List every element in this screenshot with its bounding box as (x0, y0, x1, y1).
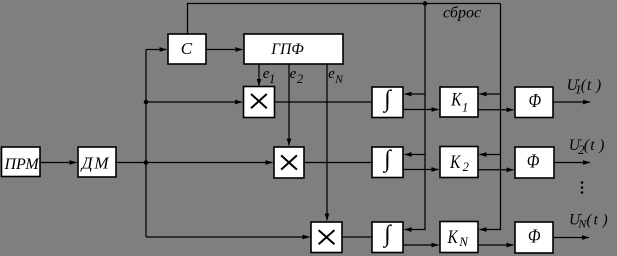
svg-text:Ф: Ф (527, 150, 540, 172)
wire: K_N to Ф3 (478, 244, 514, 246)
svg-text:∫: ∫ (382, 147, 392, 174)
wire: eN from ГПФ into multiplier 3 (326, 64, 328, 221)
svg-text:t: t (594, 211, 599, 228)
integrator 3 (372, 222, 403, 253)
wire: сброс top feedback line from C up and across (188, 4, 501, 35)
svg-text:(: ( (587, 211, 593, 228)
label: vertical ellipsis between row 2 and row 3 outputs (581, 181, 584, 194)
svg-text:1: 1 (269, 72, 275, 86)
block ДМ (78, 147, 116, 177)
wire: multiplier 2 to integrator 2 (304, 162, 372, 164)
wire: reset stub into integrator 2 (405, 154, 426, 156)
node: junction dot row 1 branch (144, 100, 149, 105)
wire: branch vertical from C row down to row 3 (145, 50, 147, 238)
svg-text:N: N (458, 234, 469, 249)
wire: integrator 2 to K2 (403, 169, 439, 171)
svg-text:∫: ∫ (382, 87, 392, 114)
label: U'2(t) output (569, 137, 605, 157)
svg-text:2: 2 (297, 72, 303, 86)
node: junction dot row 2 branch (144, 160, 149, 165)
wire: reset stub into integrator 1 (405, 93, 426, 95)
wire: multiplier 3 to integrator 3 (342, 236, 372, 238)
svg-text:Ф: Ф (529, 89, 542, 111)
svg-text:): ) (602, 211, 608, 228)
svg-text:N: N (334, 74, 344, 86)
svg-text:(: ( (581, 77, 587, 94)
svg-text:(: ( (584, 137, 590, 154)
label: U'N(t) output (569, 211, 608, 230)
wire: Ф3 output U'N(t) (553, 237, 589, 239)
block С (synchronizer) (168, 34, 206, 64)
wire: K1 to Ф1 (478, 109, 514, 111)
block K1 (440, 87, 478, 117)
wire: ДМ to multiplier 2 (116, 162, 273, 164)
wire: Ф2 output U'2(t) (554, 162, 590, 164)
svg-text:∫: ∫ (382, 222, 392, 249)
block K2 (440, 147, 478, 178)
svg-text:ПРМ: ПРМ (4, 156, 41, 173)
node: junction dot on сброс line (423, 1, 428, 6)
wire: multiplier 1 to integrator 1 (275, 101, 372, 103)
multiplier 2 (274, 147, 304, 178)
wire: сброс vertical to K resets, into K_N (480, 4, 501, 230)
svg-text:К: К (449, 152, 461, 173)
svg-text:сброс: сброс (443, 5, 481, 22)
wire: integrator 3 to K_N (403, 244, 439, 246)
svg-text:2: 2 (463, 160, 469, 174)
block Ф1 (515, 87, 553, 118)
multiplier 1 (244, 87, 275, 118)
wire: C to ГПФ (206, 49, 243, 51)
block ГПФ (244, 34, 343, 64)
block K_N (440, 222, 478, 253)
wire: ПРМ to ДМ (40, 162, 77, 164)
block ПРМ (2, 147, 41, 177)
svg-text:1: 1 (462, 101, 468, 115)
svg-text:Ф: Ф (528, 225, 541, 247)
svg-text:e: e (328, 66, 335, 82)
wire: Ф1 output U'1(t) (553, 101, 590, 103)
wire: branch into multiplier 1 (146, 101, 242, 103)
svg-text:t: t (587, 77, 592, 94)
multiplier 3 (311, 222, 342, 253)
svg-text:): ) (595, 77, 601, 94)
block Ф2 (515, 147, 554, 178)
wire: reset stub into K1 (480, 93, 501, 95)
svg-text:e: e (290, 66, 297, 82)
block Ф3 (515, 222, 553, 253)
integrator 2 (372, 147, 403, 178)
svg-text:ДМ: ДМ (80, 153, 111, 172)
svg-text:К: К (447, 227, 459, 248)
svg-text:): ) (598, 137, 604, 154)
svg-text:t: t (590, 137, 595, 154)
wire: branch into C (146, 49, 167, 51)
wire: K2 to Ф2 (478, 169, 514, 171)
label: U'1(t) output (567, 77, 602, 97)
wire: сброс vertical to integrator resets, into integrator 3 (405, 4, 426, 230)
integrator 1 (372, 87, 403, 118)
wire: integrator 1 to K1 (403, 109, 439, 111)
wire: reset stub into K2 (480, 154, 501, 156)
wire: e2 from ГПФ into multiplier 2 (288, 64, 290, 146)
svg-text:К: К (450, 89, 462, 110)
wire: e1 from ГПФ into multiplier 1 (258, 64, 260, 86)
svg-text:С: С (181, 39, 193, 58)
wire: branch into multiplier 3 (146, 236, 310, 238)
svg-text:ГПФ: ГПФ (270, 41, 304, 58)
